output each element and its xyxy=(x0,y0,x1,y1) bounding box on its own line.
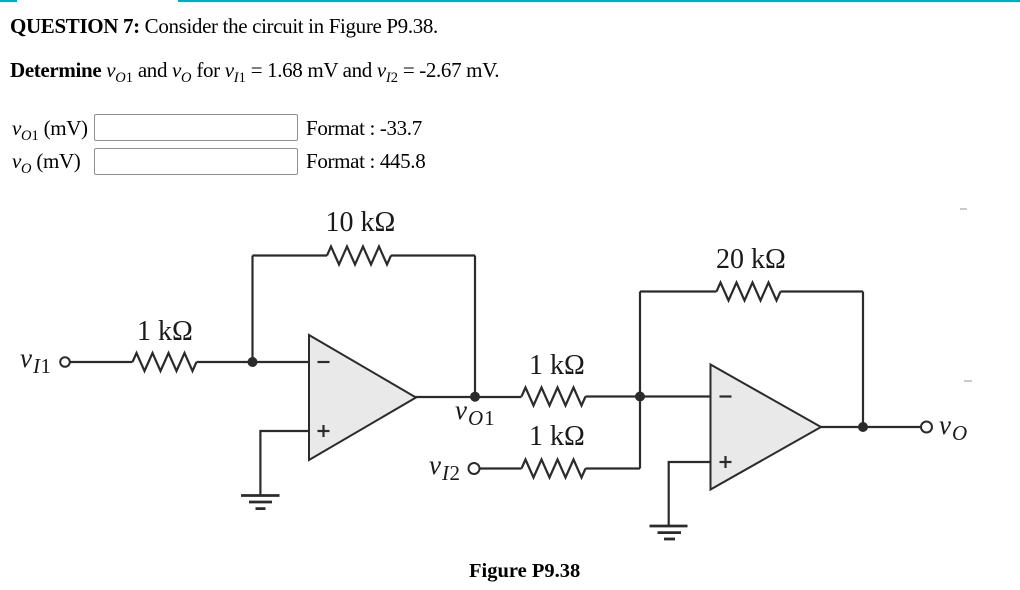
wire feedback left vertical xyxy=(251,256,253,363)
question line 2 xyxy=(10,58,499,83)
node junction at U1 inverting input xyxy=(248,357,258,367)
wire feedback 2 top right xyxy=(781,290,864,292)
scan artifact dash 2 xyxy=(964,380,972,382)
resistor R5 xyxy=(522,460,586,478)
answer input vO xyxy=(94,148,298,175)
svg-text:vI1: vI1 xyxy=(20,343,51,378)
node vO1 xyxy=(470,392,480,402)
ground 2 xyxy=(650,526,688,539)
node at U2 output xyxy=(858,422,868,432)
wire U1 output to R3 xyxy=(414,396,522,398)
node junction at U2 inverting input xyxy=(635,392,645,402)
terminal vI1 xyxy=(60,357,70,367)
svg-text:vO: vO xyxy=(939,410,967,445)
scan artifact dash 1 xyxy=(960,208,967,210)
wire U1 non-inverting input to ground xyxy=(260,431,309,496)
wire feedback top left xyxy=(253,254,328,256)
wire feedback 2 top left xyxy=(640,290,717,292)
wire R3 to op-amp U2 inverting input xyxy=(586,395,711,397)
resistor R2 xyxy=(327,247,391,265)
format hint 2 xyxy=(306,149,425,174)
wire R5 to summing vertical xyxy=(586,467,641,469)
wire feedback right vertical down to output xyxy=(474,256,476,397)
wire vI2 to R5 xyxy=(480,467,522,469)
terminal vO xyxy=(921,422,932,433)
ground 1 xyxy=(241,496,280,509)
wire U2 non-inverting input to ground xyxy=(669,462,711,526)
wire summing vertical xyxy=(639,292,641,469)
question line 1 xyxy=(10,14,438,39)
teal top bar right segment xyxy=(178,0,1020,2)
svg-text:20 kΩ: 20 kΩ xyxy=(716,244,786,275)
svg-text:1 kΩ: 1 kΩ xyxy=(529,350,585,381)
answer label vO1 xyxy=(12,116,88,141)
terminal vI2 xyxy=(469,463,480,474)
svg-text:1 kΩ: 1 kΩ xyxy=(529,421,585,452)
teal top bar left segment xyxy=(0,0,17,2)
op-amp U2 xyxy=(711,365,822,490)
svg-text:vI2: vI2 xyxy=(429,450,460,485)
answer input vO1 xyxy=(94,114,298,141)
svg-text:Figure P9.38: Figure P9.38 xyxy=(469,560,580,582)
resistor R4 xyxy=(717,283,781,301)
wire feedback 2 right vertical xyxy=(862,292,864,428)
resistor R1 xyxy=(133,353,197,371)
wire feedback top right xyxy=(391,254,475,256)
svg-text:10 kΩ: 10 kΩ xyxy=(326,207,396,238)
wire R1 to op-amp U1 inverting input xyxy=(197,361,310,363)
op-amp U1 xyxy=(309,335,416,460)
wire U2 output to terminal vO xyxy=(819,426,921,428)
answer label vO xyxy=(12,149,80,174)
format hint 1 xyxy=(306,116,422,141)
wire vI1 to R1 xyxy=(70,361,133,363)
resistor R3 xyxy=(522,388,586,406)
svg-text:1 kΩ: 1 kΩ xyxy=(137,316,193,347)
